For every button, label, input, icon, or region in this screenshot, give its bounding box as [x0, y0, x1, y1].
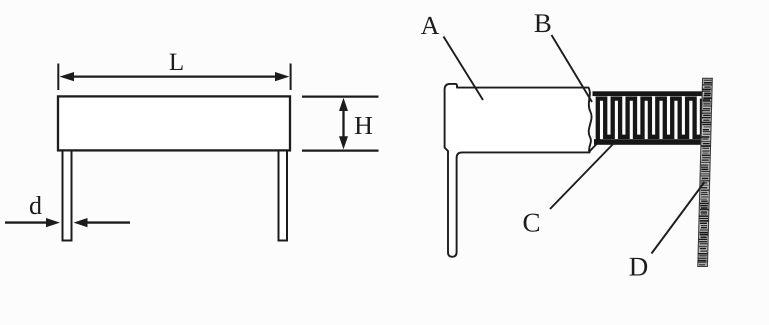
substrate strip D	[698, 78, 713, 266]
dimension d left arrow	[5, 218, 60, 227]
dimension H top line	[302, 95, 379, 97]
dimension H bottom line	[302, 150, 379, 152]
leader line A	[444, 37, 484, 101]
dimension d right arrow	[74, 218, 131, 227]
label C	[524, 214, 539, 232]
dimension L arrow	[60, 72, 290, 81]
label A	[421, 17, 439, 34]
dimension L extension tick right	[290, 64, 292, 91]
left lead (left view)	[63, 151, 72, 241]
label H	[355, 117, 372, 134]
dimension H arrow	[339, 98, 348, 150]
step joining body bottom edge to bottom bus bar	[589, 144, 597, 153]
resistor body outline (left view)	[58, 96, 290, 150]
serpentine resistive element C	[598, 99, 702, 140]
label d	[30, 196, 42, 214]
leader line D	[652, 182, 705, 254]
dimension L extension tick left	[57, 64, 59, 91]
label B	[535, 14, 551, 32]
leader line B	[552, 35, 593, 102]
leader line C	[550, 143, 615, 210]
top bus bar of element	[593, 91, 704, 96]
sensor body A outline with break edge and lead (right view)	[445, 84, 592, 257]
bottom bus bar of element	[594, 139, 703, 145]
label D	[630, 258, 648, 276]
label L	[170, 54, 183, 70]
right lead (left view)	[279, 151, 288, 241]
